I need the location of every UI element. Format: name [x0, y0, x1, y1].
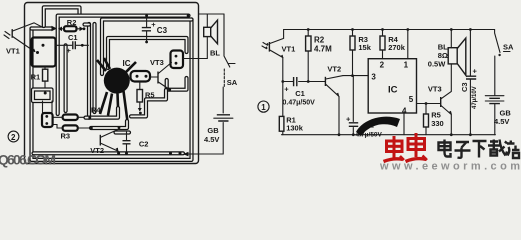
svg-text:C1: C1: [295, 89, 305, 98]
svg-text:SA: SA: [503, 43, 514, 52]
svg-text:0.5W: 0.5W: [428, 60, 446, 69]
svg-text:130k: 130k: [286, 124, 304, 133]
svg-text:4.7M: 4.7M: [314, 45, 332, 54]
svg-text:VT2: VT2: [90, 146, 104, 155]
svg-text:1: 1: [261, 103, 266, 112]
svg-text:BL: BL: [210, 49, 220, 58]
svg-text:SA: SA: [227, 78, 238, 87]
svg-text:4.5V: 4.5V: [204, 135, 219, 144]
svg-text:330: 330: [431, 119, 444, 128]
svg-text:C3: C3: [460, 82, 469, 92]
svg-text:VT3: VT3: [150, 58, 164, 67]
svg-text:IC: IC: [123, 59, 131, 68]
svg-text:8Ω: 8Ω: [438, 51, 448, 60]
svg-text:R3: R3: [61, 131, 71, 140]
svg-text:VT2: VT2: [327, 64, 341, 73]
svg-text:+: +: [151, 20, 156, 29]
svg-text:C2: C2: [139, 140, 149, 149]
svg-text:1: 1: [404, 61, 409, 70]
svg-text:15k: 15k: [358, 43, 371, 52]
svg-text:www.eeworm.com: www.eeworm.com: [379, 161, 520, 171]
svg-text:VT1: VT1: [6, 47, 20, 56]
svg-text:GB: GB: [207, 126, 219, 135]
svg-text:+: +: [346, 115, 351, 124]
svg-text:5: 5: [409, 95, 414, 104]
svg-text:+: +: [284, 85, 289, 94]
svg-text:C3: C3: [157, 26, 168, 35]
svg-text:Q606.COM: Q606.COM: [0, 152, 56, 168]
svg-text:+: +: [67, 46, 72, 55]
svg-text:47μ/10V: 47μ/10V: [472, 86, 478, 109]
svg-text:270k: 270k: [388, 43, 406, 52]
svg-text:+: +: [473, 67, 478, 76]
svg-text:4.5V: 4.5V: [494, 117, 509, 126]
svg-text:R4: R4: [91, 106, 101, 115]
svg-text:3: 3: [371, 73, 376, 82]
svg-text:R1: R1: [31, 72, 41, 81]
svg-text:2: 2: [11, 133, 16, 142]
svg-text:2: 2: [380, 60, 385, 69]
svg-text:C1: C1: [68, 33, 78, 42]
svg-text:VT3: VT3: [428, 85, 442, 94]
svg-text:VT1: VT1: [282, 45, 296, 54]
svg-text:IC: IC: [388, 85, 398, 96]
svg-text:R2: R2: [67, 18, 77, 27]
svg-text:0.47μ/50V: 0.47μ/50V: [283, 99, 316, 106]
svg-text:R2: R2: [314, 36, 325, 45]
